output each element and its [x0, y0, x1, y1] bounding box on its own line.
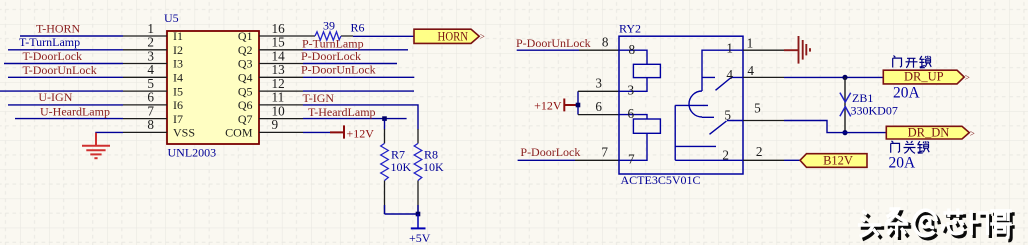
wire to relay pin 7 — [518, 159, 575, 161]
junction at R8 bottom — [416, 212, 421, 217]
svg-text:+12V: +12V — [534, 98, 562, 112]
svg-text:1: 1 — [726, 40, 733, 55]
wire P-DoorUnLock — [303, 76, 414, 78]
relay RY2 pin 6 — [578, 99, 619, 115]
relay contact blade to pin 4 — [716, 77, 744, 90]
junction on T-HeardLamp — [382, 116, 387, 121]
relay inside pin numbers right — [722, 40, 733, 162]
power +12V (relay coil) — [534, 98, 578, 112]
net label P-DoorUnLock (relay) — [516, 36, 591, 50]
net label U-HeardLamp — [40, 104, 110, 118]
svg-text:P-DoorLock: P-DoorLock — [520, 145, 580, 159]
relay contact blade to pin 5 — [710, 121, 744, 135]
relay coil 2 — [619, 115, 660, 161]
IC U5 pin names I1-I7 VSS — [173, 29, 195, 139]
svg-text:20A: 20A — [889, 154, 917, 171]
svg-text:I1: I1 — [173, 29, 183, 43]
power +5V — [409, 214, 431, 245]
svg-text:10K: 10K — [423, 160, 444, 174]
net label T-DoorLock — [23, 49, 83, 63]
svg-text:12: 12 — [272, 76, 285, 91]
svg-text:UNL2003: UNL2003 — [168, 146, 217, 160]
resistor R7 — [381, 119, 389, 214]
net label T-HORN — [36, 21, 81, 35]
svg-text:R6: R6 — [351, 21, 365, 35]
varistor ZB1 — [840, 77, 851, 132]
wire T-DoorUnLock — [8, 76, 123, 78]
wire U-HeardLamp — [15, 118, 123, 120]
svg-text:5: 5 — [754, 101, 761, 116]
svg-text:9: 9 — [272, 117, 279, 132]
svg-text:VSS: VSS — [173, 126, 195, 140]
varistor ZB1 value 330KD07 — [851, 104, 898, 118]
svg-text:+5V: +5V — [409, 231, 431, 245]
svg-text:+12V: +12V — [347, 126, 375, 140]
wire pin 4 to DR_UP — [784, 76, 883, 78]
resistor R8 — [414, 129, 422, 214]
svg-text:I2: I2 — [173, 43, 183, 57]
wire P-DoorLock — [303, 63, 397, 65]
svg-text:1: 1 — [147, 21, 154, 36]
svg-text:>: > — [965, 72, 970, 82]
svg-text:4: 4 — [726, 67, 733, 82]
svg-text:2: 2 — [756, 144, 763, 159]
wire P-TurnLamp — [303, 49, 408, 51]
svg-text:20A: 20A — [893, 85, 921, 102]
net label T-DoorUnLock — [23, 63, 97, 77]
svg-text:U-HeardLamp: U-HeardLamp — [40, 104, 110, 118]
relay RY2 body — [619, 36, 743, 174]
svg-text:7: 7 — [147, 103, 154, 118]
relay RY2 value ACTE3C5V01C — [621, 173, 701, 187]
wire R6 to HORN port — [353, 35, 414, 37]
svg-text:Q2: Q2 — [238, 43, 253, 57]
ground GND left — [82, 133, 110, 158]
svg-text:I3: I3 — [173, 57, 183, 71]
svg-text:39: 39 — [323, 19, 335, 33]
svg-text:10: 10 — [272, 103, 286, 118]
svg-text:Q7: Q7 — [238, 112, 253, 126]
ground at relay pin 1 — [784, 36, 810, 64]
resistor R7 designator — [391, 147, 405, 161]
wire pin9 to +12V — [303, 131, 330, 133]
resistor R8 value 10K — [423, 160, 444, 174]
svg-text:10K: 10K — [391, 160, 412, 174]
IC U5 right pins — [259, 36, 303, 132]
svg-text:Q6: Q6 — [238, 98, 253, 112]
IC U5 value UNL2003 — [168, 146, 217, 160]
label men-kai-suo (door unlock) — [893, 56, 932, 68]
svg-text:6: 6 — [595, 99, 602, 114]
varistor ZB1 designator — [852, 91, 873, 105]
IC U5 right pin numbers 16-9 — [272, 21, 286, 132]
wire pin5 stub — [0, 90, 123, 92]
IC U5 left pin numbers 1-8 — [147, 21, 154, 132]
junction at +12V — [576, 103, 581, 108]
svg-text:1: 1 — [747, 36, 754, 51]
svg-text:330KD07: 330KD07 — [851, 104, 898, 118]
svg-text:RY2: RY2 — [619, 22, 641, 36]
svg-text:3: 3 — [147, 48, 154, 63]
svg-text:Q5: Q5 — [238, 84, 253, 98]
svg-text:5: 5 — [147, 76, 154, 91]
svg-text:HORN: HORN — [438, 29, 469, 43]
relay coil 1 — [619, 50, 660, 91]
svg-text:Q4: Q4 — [238, 71, 253, 85]
port HORN — [414, 29, 485, 43]
svg-text:DR_UP: DR_UP — [904, 70, 944, 84]
net label T-HeardLamp — [308, 105, 376, 119]
relay RY2 pin 5 — [743, 101, 784, 121]
port DR_UP — [883, 70, 970, 84]
IC U5 pin names Q1-Q7 COM — [225, 29, 253, 139]
net label P-DoorLock (relay) — [520, 145, 580, 159]
svg-text:COM: COM — [225, 126, 253, 140]
junction at ZB1 bottom — [842, 130, 847, 135]
svg-text:>: > — [970, 128, 975, 138]
svg-text:Q3: Q3 — [238, 57, 253, 71]
relay RY2 pin 3 — [578, 76, 619, 92]
svg-text:I4: I4 — [173, 71, 183, 85]
net label T-IGN — [303, 91, 335, 105]
relay RY2 pin 2 — [743, 144, 784, 160]
relay RY2 pin 1 — [743, 36, 784, 51]
resistor R6 designator — [351, 21, 365, 35]
label 20A (DR_DN) — [889, 154, 917, 171]
relay contact common from pin 2 — [675, 105, 743, 160]
svg-text:T-IGN: T-IGN — [303, 91, 335, 105]
wire pin 5 to DR_DN — [784, 121, 886, 133]
port B12V — [800, 153, 867, 167]
op-amp U5 designator — [164, 11, 179, 25]
svg-text:T-HORN: T-HORN — [36, 21, 81, 35]
IC U5 body UNL2003 — [167, 31, 259, 144]
resistor R8 designator — [424, 147, 438, 161]
wire pin 2 to B12V — [784, 159, 800, 161]
svg-text:7: 7 — [601, 145, 608, 160]
svg-text:8: 8 — [147, 117, 154, 132]
svg-text:4: 4 — [147, 62, 154, 77]
label men-guan-suo (door lock) — [891, 141, 930, 154]
power +12V (IC COM) — [330, 125, 374, 140]
port DR_DN — [886, 125, 975, 139]
svg-text:16: 16 — [272, 21, 286, 36]
svg-text:I7: I7 — [173, 112, 183, 126]
svg-text:B12V: B12V — [823, 153, 853, 167]
wire T-TurnLamp — [8, 49, 123, 51]
svg-text:ACTE3C5V01C: ACTE3C5V01C — [621, 173, 701, 187]
wire to relay pin 8 — [517, 49, 579, 51]
svg-text:T-HeardLamp: T-HeardLamp — [308, 105, 376, 119]
svg-text:P-DoorUnLock: P-DoorUnLock — [516, 36, 591, 50]
svg-text:I6: I6 — [173, 98, 183, 112]
svg-text:I5: I5 — [173, 84, 183, 98]
wire T-DoorLock — [4, 63, 123, 65]
net label P-TurnLamp — [302, 36, 364, 50]
wire pin8 to ground — [96, 131, 123, 134]
svg-text:6: 6 — [628, 106, 635, 121]
net label P-DoorUnLock — [301, 63, 376, 77]
relay RY2 pin 8 — [579, 35, 619, 51]
svg-text:13: 13 — [272, 62, 286, 77]
relay contact common from pin 1 — [689, 50, 743, 117]
svg-text:U-IGN: U-IGN — [38, 90, 72, 104]
resistor R6 value 39 — [323, 19, 335, 33]
wire R7 bottom to R8 bottom — [385, 205, 419, 214]
svg-text:T-DoorUnLock: T-DoorUnLock — [23, 63, 97, 77]
resistor R6 — [303, 32, 353, 40]
svg-text:DR_DN: DR_DN — [908, 125, 950, 139]
wire T-HeardLamp — [303, 118, 407, 120]
svg-text:14: 14 — [272, 48, 286, 63]
svg-text:8: 8 — [602, 35, 609, 50]
svg-text:4: 4 — [747, 63, 754, 78]
svg-text:U5: U5 — [164, 11, 179, 25]
svg-text:2: 2 — [722, 147, 729, 162]
wire T-IGN to R8 — [303, 105, 418, 130]
wire +12V to pins 3 and 6 — [577, 91, 579, 114]
svg-text:>: > — [480, 32, 485, 42]
svg-text:8: 8 — [629, 42, 636, 57]
svg-text:3: 3 — [628, 83, 635, 98]
relay RY2 pin 7 — [575, 145, 619, 161]
svg-text:T-TurnLamp: T-TurnLamp — [19, 35, 80, 49]
label 20A (DR_UP) — [893, 85, 921, 102]
svg-text:Q1: Q1 — [238, 29, 253, 43]
relay RY2 designator — [619, 22, 641, 36]
net label P-DoorLock — [301, 49, 361, 63]
svg-text:3: 3 — [595, 76, 602, 91]
svg-text:P-DoorLock: P-DoorLock — [301, 49, 361, 63]
wire T-HORN — [20, 35, 123, 37]
IC U5 left pins — [123, 36, 167, 132]
net label U-IGN — [38, 90, 72, 104]
svg-text:T-DoorLock: T-DoorLock — [23, 49, 83, 63]
svg-text:P-DoorUnLock: P-DoorUnLock — [301, 63, 376, 77]
net label T-TurnLamp — [19, 35, 80, 49]
relay inside pin numbers left — [628, 42, 636, 167]
resistor R7 value 10K — [391, 160, 412, 174]
junction at ZB1 top — [842, 75, 847, 80]
relay RY2 pin 4 — [743, 63, 784, 78]
svg-text:7: 7 — [628, 152, 635, 167]
wire pin12 stub — [303, 90, 414, 92]
svg-text:5: 5 — [724, 108, 731, 123]
wire U-IGN — [8, 104, 123, 106]
